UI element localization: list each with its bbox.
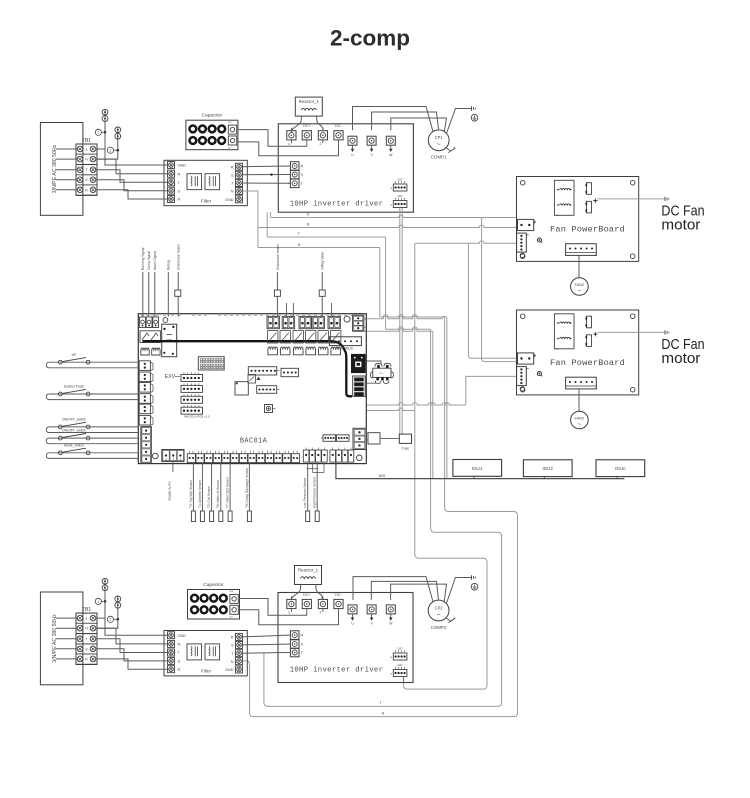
earth glyph fan 2 [665, 330, 669, 334]
svg-text:GND: GND [178, 164, 187, 168]
switch on-off switch 2 [46, 429, 139, 444]
svg-text:T': T' [380, 701, 383, 705]
label N1 [307, 223, 310, 227]
svg-text:DC-: DC- [335, 593, 342, 597]
wire TB1 N to junction2 top [96, 150, 118, 159]
driver UVW output terminals bottom [348, 605, 395, 626]
svg-text:R: R [178, 198, 181, 202]
svg-text:Suction Flush: Suction Flush [64, 385, 85, 389]
svg-text:Debug: Debug [167, 260, 171, 270]
driver DC bus terminals top [287, 124, 343, 146]
wire TB1 PE to junction1 bottom [96, 601, 105, 618]
svg-text:⏚: ⏚ [85, 616, 88, 621]
sensor T8: Comp Discharge Sensor [245, 463, 252, 522]
board name label [240, 438, 268, 446]
wire mains feeds bottom [56, 618, 77, 659]
wire COMP1 earth [446, 109, 471, 134]
relay coil connectors left [141, 348, 160, 355]
terminal block TB1 top [76, 138, 97, 195]
relay K1 K2 block [140, 331, 160, 343]
center connector CN-C [257, 386, 280, 394]
board hole bottom-left [153, 453, 159, 459]
svg-text:1117: 1117 [397, 194, 403, 198]
svg-text:T5: Coil Sensor: T5: Coil Sensor [207, 485, 211, 508]
wire filter S to driver top [243, 173, 291, 175]
wire W phase COMP2 [391, 584, 447, 602]
svg-text:×+: ×+ [228, 120, 232, 124]
wire TB1 row4 to filter top [96, 180, 168, 191]
svg-text:IDU2: IDU2 [542, 466, 553, 471]
EMI filter top [164, 160, 247, 205]
signal wire Crankcase heater [274, 243, 280, 317]
svg-text:GND: GND [225, 668, 234, 672]
svg-text:1: 1 [288, 611, 290, 615]
inverter driver board outline bottom [278, 593, 413, 683]
svg-text:⏚: ⏚ [453, 145, 456, 150]
svg-text:⏚: ⏚ [85, 147, 88, 152]
svg-text:×: × [390, 655, 392, 659]
reactor L1 bottom [295, 566, 322, 585]
wire to fan motor 2 [578, 389, 580, 411]
terminal box to fuse [368, 433, 380, 444]
bus label [379, 474, 386, 478]
svg-text:T3: Top Wet Sensor: T3: Top Wet Sensor [189, 479, 193, 508]
svg-text:TB1: TB1 [82, 138, 91, 144]
DIP header J5 [198, 357, 224, 370]
thick power trace [143, 341, 353, 396]
svg-text:Capacitor: Capacitor [202, 113, 223, 119]
fan board output connectors 2 [586, 316, 592, 346]
board hole top-right [344, 316, 350, 322]
indoor unit IDU1 [453, 460, 502, 477]
svg-text:ON/OFF_switch: ON/OFF_switch [62, 429, 86, 433]
main control board BAC01A outline [138, 314, 366, 464]
svg-text:1: 1 [288, 142, 290, 146]
svg-text:motor: motor [661, 218, 700, 234]
svg-text:IDUn: IDUn [615, 466, 626, 471]
fan board label 1 [550, 225, 625, 235]
label bottom N [382, 712, 385, 716]
wire CN drop bottom [403, 677, 405, 683]
wire capacitor to DC- bottom [240, 610, 339, 625]
svg-text:N: N [231, 190, 234, 194]
wire board comm1 to bus [366, 316, 447, 478]
svg-text:Fan PowerBoard: Fan PowerBoard [550, 358, 625, 368]
sensor High Pressure Sensor [313, 463, 320, 522]
connectors CN-D CN-E [321, 435, 349, 442]
svg-text:Crankcase heater: Crankcase heater [177, 243, 181, 270]
driver CN connectors top [390, 177, 407, 207]
fan board connector CNA 2 [518, 353, 537, 364]
wire to fuse [380, 437, 399, 439]
switch on-off switch 1 [46, 418, 139, 433]
wire N1 to FanBoard1 [258, 225, 517, 227]
svg-text:GND: GND [178, 634, 187, 638]
fan motor 2 [571, 411, 589, 429]
switch mode switch [46, 443, 139, 458]
sensor T5: Coil Sensor [207, 463, 214, 522]
center connector CN-B [281, 368, 299, 376]
svg-text:Reactor_1: Reactor_1 [299, 99, 320, 104]
earth terminal COMP1 [471, 106, 478, 121]
svg-text:3/N/PE AC 380 50Hz: 3/N/PE AC 380 50Hz [52, 144, 58, 193]
label DC Fan motor 2 [661, 337, 704, 367]
driver CN connectors bottom [390, 646, 407, 676]
wire junction1 to filter GND top [105, 132, 167, 165]
fan board R mark 2 [537, 371, 542, 376]
svg-text:N: N [178, 172, 181, 176]
driver label bottom [290, 667, 384, 675]
RS485 connector [162, 450, 184, 462]
svg-text:BUS: BUS [379, 474, 386, 478]
wire filter R to driver bottom [243, 635, 288, 637]
label S-prime [306, 213, 309, 217]
svg-text:BAC01A_PCB v1.0: BAC01A_PCB v1.0 [185, 415, 210, 419]
small relay center [248, 375, 261, 384]
wire W phase COMP1 [391, 118, 447, 132]
wire branch to FanBoard2 connA p2 [482, 218, 517, 362]
svg-text:1117: 1117 [397, 177, 403, 181]
signal wire 4-Way Valve [319, 252, 325, 317]
svg-text:⏚: ⏚ [452, 615, 455, 620]
wire S-prime to FanBoard1 [271, 212, 517, 217]
sensor Low Pressure Sensor [303, 463, 310, 522]
RS485 to PC label [168, 462, 173, 501]
label T-prime [298, 232, 301, 236]
svg-text:1: 1 [97, 131, 99, 135]
signal wire Debug [167, 260, 171, 317]
power source AC mains bottom [40, 592, 83, 685]
signal wire Crankcase heater [175, 243, 181, 317]
wire U phase COMP1 [353, 107, 434, 132]
svg-text:N: N [298, 243, 301, 247]
wire TB1 row3 to filter top [96, 170, 168, 183]
svg-text:DC+: DC+ [303, 593, 310, 597]
wire CN pair A down [399, 208, 401, 434]
label DC Fan motor 1 [661, 203, 704, 233]
relay K3 tall [162, 324, 177, 357]
svg-text:R: R [301, 634, 304, 638]
driver label top [290, 201, 384, 209]
driver RST input terminals top [288, 162, 304, 188]
IC U1 [235, 382, 248, 395]
svg-text:GND: GND [225, 198, 234, 202]
svg-text:T4: Ambient Sensor: T4: Ambient Sensor [198, 479, 202, 508]
svg-text:COMP1: COMP1 [431, 155, 447, 160]
wire capacitor to DC+ bottom [240, 599, 307, 616]
svg-text:1: 1 [97, 600, 99, 604]
fan motor 1 [571, 278, 589, 296]
svg-text:~: ~ [436, 610, 440, 619]
indoor unit IDUn [596, 460, 645, 477]
svg-text:Capacitor: Capacitor [203, 582, 224, 588]
wire CN pair B down [401, 208, 403, 434]
wire capacitor to DC- top [238, 142, 339, 156]
wire to fan motor 1 [578, 255, 580, 277]
fan board transformer 2 [554, 314, 574, 349]
indoor unit IDU2 [523, 460, 572, 477]
svg-text:10HP inverter driver: 10HP inverter driver [290, 201, 384, 209]
svg-text:EXV: EXV [165, 374, 176, 380]
wire COMP2 earth [446, 578, 471, 605]
sensor T7: Water Out Sensor [226, 463, 233, 522]
svg-text:FAN2: FAN2 [575, 415, 585, 420]
svg-text:T—: T— [379, 371, 384, 375]
svg-text:10HP inverter driver: 10HP inverter driver [290, 667, 384, 675]
signal wire Alarm Signal [153, 251, 157, 317]
reactor L1 top [295, 97, 322, 116]
wire junction1 to filter GND bottom [105, 601, 167, 635]
fan power board outline 2 [517, 310, 639, 395]
svg-text:S': S' [306, 213, 309, 217]
board comm connector 3pin [353, 315, 364, 331]
svg-text:4-Way Valve: 4-Way Valve [321, 252, 325, 270]
svg-text:HP: HP [72, 353, 77, 357]
svg-text:×−: ×− [228, 146, 232, 150]
wire TB1 PE to junction1 top [96, 132, 105, 149]
wire TB1 row2 to filter bottom [96, 628, 168, 644]
board hole bottom-right [357, 455, 363, 461]
pressure sensor jumpers [307, 463, 325, 473]
bus stub IDU2 [542, 476, 547, 478]
svg-text:Fuse: Fuse [402, 447, 410, 451]
svg-text:1117: 1117 [397, 646, 403, 650]
wire TB1 row4 to filter bottom [96, 649, 168, 661]
svg-text:BAC01A: BAC01A [240, 438, 268, 446]
driver DC bus terminals bottom [287, 593, 343, 615]
sensor T6: Water In Sensor [216, 463, 223, 522]
switch HP switch 1 [46, 353, 139, 368]
wire filter R to driver top [243, 165, 291, 168]
wire N from filter vertical [243, 191, 258, 248]
capacitor bank C1 top [186, 113, 238, 150]
bus wire RS485 [336, 462, 625, 479]
svg-text:2: 2 [109, 149, 111, 153]
earth terminal COMP2 [471, 575, 478, 590]
svg-text:×: × [390, 672, 392, 676]
fan board label 2 [550, 358, 625, 368]
driver UVW output terminals top [348, 136, 395, 157]
wire TB1 row3 to filter bottom [96, 639, 168, 653]
sensor T4: Ambient Sensor [198, 463, 205, 522]
svg-text:Fan PowerBoard: Fan PowerBoard [550, 225, 625, 235]
svg-text:High Pressure Sensor: High Pressure Sensor [313, 476, 317, 508]
svg-text:Comp Signal: Comp Signal [147, 251, 151, 270]
svg-text:Alarm Signal: Alarm Signal [153, 251, 157, 270]
board version label [185, 415, 210, 419]
svg-text:N: N [307, 223, 310, 227]
wire TB1 N to junction2 bottom [96, 619, 118, 628]
wire reactor legs top [291, 116, 323, 132]
svg-text:2: 2 [319, 611, 321, 615]
wire TB1 row5 to filter top [96, 190, 168, 199]
fuse F1 [399, 434, 411, 450]
wire reactor legs bottom [291, 585, 322, 601]
compressor motor COMP2 [428, 600, 456, 630]
EMI filter bottom [164, 631, 247, 676]
transformer T1 [366, 361, 393, 383]
MOD TBUS connector [329, 337, 361, 351]
wire FanBoard1 CNB comm route to bottom section [404, 241, 517, 689]
fan board motor connector 2 [566, 377, 597, 389]
wire fan earth 1 [598, 198, 665, 200]
title 2-comp [330, 26, 410, 51]
svg-text:T: T [85, 637, 87, 641]
label bottom T-prime [380, 701, 383, 705]
svg-text:T8: Comp Discharge Sensor: T8: Comp Discharge Sensor [245, 467, 249, 508]
relay coil connector row [268, 347, 341, 355]
wire V phase COMP2 [371, 581, 438, 600]
board left edge connectors [139, 361, 153, 426]
svg-text:R: R [178, 668, 181, 672]
svg-text:IDU1: IDU1 [472, 466, 483, 471]
fan board connector CNA 1 [518, 219, 537, 230]
label N2 [298, 243, 301, 247]
svg-text:DC+: DC+ [303, 124, 310, 128]
relay row [268, 331, 341, 343]
earth glyph fan 1 [665, 197, 669, 201]
terminal block TB1 bottom [76, 607, 97, 664]
signal wire Comp Signal [147, 251, 151, 317]
wire T-prime staircase to bottom section [264, 212, 502, 706]
svg-text:Reactor_1: Reactor_1 [298, 568, 319, 573]
svg-text:RS485 To PC: RS485 To PC [168, 481, 172, 501]
fan board DC plus mark 1 [593, 198, 597, 202]
board top edge pin labels [141, 314, 359, 316]
board connector to fuse [353, 428, 366, 449]
wire board to FanBoard2 connB [366, 376, 516, 405]
sensor T3: Top Wet Sensor [189, 463, 196, 522]
wire TB1 row2 to filter top [96, 159, 168, 174]
wire fan earth 2 [598, 331, 665, 333]
svg-text:N: N [382, 712, 385, 716]
switch SW1 [265, 405, 276, 413]
svg-text:N: N [178, 643, 181, 647]
fan board DC plus mark 2 [593, 332, 597, 336]
wire TB1 row5 to filter bottom [96, 659, 168, 669]
board output connector row [267, 316, 340, 328]
svg-text:×: × [390, 186, 392, 190]
sensor connector row [187, 451, 299, 463]
fan board output connectors 1 [586, 183, 592, 213]
wire filter T to driver top [243, 182, 291, 184]
signal wire Running Signal [141, 247, 145, 316]
board connectors CN-signal top-left [140, 317, 159, 328]
signal stubs [287, 303, 332, 316]
svg-text:~: ~ [578, 288, 582, 295]
fan board connector CNB 2 [517, 367, 529, 391]
svg-text:TB1: TB1 [82, 607, 91, 613]
wire N2 staircase to bottom section [243, 248, 518, 717]
inverter driver board outline top [278, 124, 413, 212]
svg-text:motor: motor [661, 351, 700, 367]
svg-text:DC-: DC- [335, 124, 342, 128]
wire filter S to driver bottom [243, 643, 288, 646]
svg-text:×−: ×− [230, 615, 234, 619]
center connector CN-A [248, 367, 279, 375]
fuse connector stubs [366, 433, 368, 440]
svg-text:T': T' [298, 232, 301, 236]
svg-text:Running Signal: Running Signal [141, 247, 145, 270]
svg-text:~: ~ [578, 421, 582, 428]
svg-text:Filter: Filter [201, 669, 212, 674]
board left lower connector column [141, 427, 151, 464]
wire filter T to driver bottom [243, 652, 288, 655]
svg-text:1117: 1117 [397, 663, 403, 667]
svg-text:2-comp: 2-comp [330, 26, 410, 51]
svg-text:2: 2 [109, 618, 111, 622]
wire tee to FanBoard2 connA p1 [468, 243, 516, 358]
svg-text:Low Pressure Sensor: Low Pressure Sensor [303, 477, 307, 508]
bus stub IDUn [615, 476, 620, 478]
fan board motor connector 1 [566, 244, 597, 256]
svg-text:×+: ×+ [230, 590, 234, 594]
board mounting hole top-left [163, 318, 168, 323]
earth junction 1 top [95, 109, 108, 135]
svg-text:2: 2 [319, 142, 321, 146]
wire V phase COMP1 [372, 112, 439, 130]
switch suction switch [46, 385, 139, 400]
power relay module [352, 354, 366, 372]
earth junction 2 top [107, 127, 120, 153]
compressor motor COMP1 [428, 130, 456, 160]
wire board tee to comm route [366, 408, 415, 410]
earth junction 2 bottom [107, 596, 120, 622]
EXV label [165, 374, 180, 380]
svg-text:Crankcase heater: Crankcase heater [276, 243, 280, 270]
pressure and comm connector groups [303, 448, 354, 463]
svg-text:T7: Water Out Sensor: T7: Water Out Sensor [226, 476, 230, 508]
svg-text:N: N [231, 660, 234, 664]
comm connector stubs [364, 319, 367, 331]
driver RST input terminals bottom [288, 631, 304, 657]
svg-text:ON/OFF_switch: ON/OFF_switch [62, 418, 86, 422]
board DC connector black [353, 376, 366, 396]
svg-text:R: R [301, 165, 304, 169]
wire mains feeds top [56, 149, 77, 190]
EXV connectors 1-4 [181, 373, 203, 415]
wire capacitor to DC+ top [238, 130, 307, 147]
svg-text:T6: Water In Sensor: T6: Water In Sensor [216, 479, 220, 508]
svg-text:R: R [231, 165, 234, 169]
fan board connector CNB 1 [517, 233, 529, 258]
svg-text:~: ~ [437, 140, 441, 149]
fan power board outline 1 [517, 177, 639, 262]
fan board transformer 1 [554, 180, 574, 215]
power source AC mains top [40, 123, 83, 216]
svg-text:T: T [85, 168, 87, 172]
earth junction 1 bottom [95, 578, 108, 604]
svg-text:COMP2: COMP2 [431, 625, 447, 630]
svg-text:R: R [231, 636, 234, 640]
capacitor bank C2 bottom [188, 582, 240, 619]
svg-text:Filter: Filter [201, 198, 212, 203]
svg-text:×: × [390, 203, 392, 207]
fan board R mark 1 [537, 238, 542, 243]
svg-text:Mode_switch: Mode_switch [64, 443, 84, 447]
svg-text:MOD TBUS :: MOD TBUS : [336, 346, 355, 350]
wire U phase COMP2 [353, 577, 433, 602]
wire board comm2 to bus [366, 329, 433, 479]
svg-text:FAN2: FAN2 [575, 282, 585, 287]
bus stub IDU1 [471, 476, 476, 478]
